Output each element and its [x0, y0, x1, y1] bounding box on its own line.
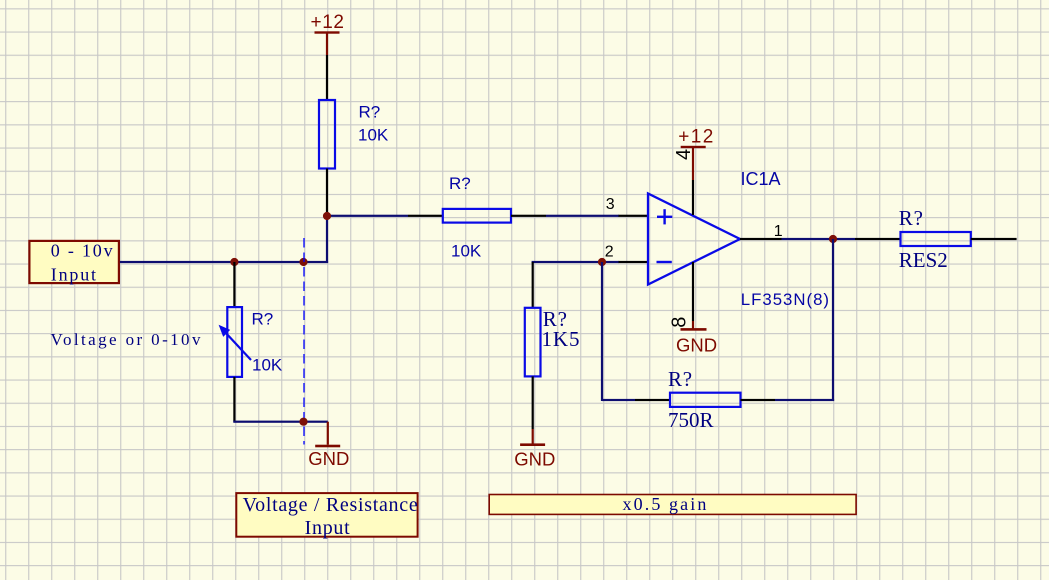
- pot R3 bottom pin wire: [233, 377, 235, 422]
- op-amp pin 4 wire: [692, 180, 694, 215]
- resistor R5 body (RES2): [901, 232, 971, 246]
- svg-text:1K5: 1K5: [542, 327, 581, 351]
- op-amp power +12 symbol: [678, 127, 714, 180]
- wire node row pin3: junction to R2: [327, 215, 408, 217]
- svg-text:R?: R?: [449, 174, 471, 193]
- pin wire right of R2: [511, 215, 546, 217]
- junction node B (pot top): [230, 258, 238, 266]
- junction node F (output): [829, 235, 837, 243]
- svg-text:IC1A: IC1A: [741, 169, 781, 189]
- svg-text:8: 8: [669, 317, 691, 328]
- note box x0.5 gain: [489, 494, 856, 514]
- pin wire left of R2: [408, 215, 443, 217]
- note box Voltage / Resistance Input: [236, 493, 418, 539]
- wire pot bottom to GND: [233, 421, 327, 423]
- resistor R2 body (horizontal 10K): [443, 209, 511, 223]
- pin wire right of R5: [971, 238, 1017, 240]
- junction node E (pin2 feedback): [598, 258, 606, 266]
- resistor R6 body (750R): [670, 393, 741, 407]
- op-amp minus input mark: [657, 261, 672, 263]
- svg-text:Voltage / Resistance: Voltage / Resistance: [243, 494, 419, 516]
- feedback wire to R6: [602, 399, 635, 401]
- svg-text:2: 2: [605, 243, 614, 260]
- pin wire below R1 to node: [326, 169, 328, 217]
- op-amp pin 2 stub: [619, 261, 649, 263]
- ground GND2: [514, 429, 555, 469]
- feedback vertical wire from junction E down: [601, 262, 603, 401]
- wire output to junction: [782, 238, 856, 240]
- dashed blue line: [303, 238, 305, 445]
- svg-text:Voltage or 0-10v: Voltage or 0-10v: [51, 330, 203, 349]
- pin wire left of R6: [635, 399, 670, 401]
- junction node A: [323, 212, 331, 220]
- resistor R4 top pin wire (1K5): [532, 262, 534, 308]
- svg-text:LF353N(8): LF353N(8): [741, 290, 830, 309]
- input port box 0-10v: [29, 240, 119, 284]
- junction node D (dashed line bottom): [299, 418, 307, 426]
- pin wire from +12 to R1: [326, 55, 328, 101]
- resistor R1 body (vertical 10K): [319, 100, 335, 169]
- svg-text:R?: R?: [359, 103, 381, 122]
- junction node C (dashed line top): [299, 258, 307, 266]
- feedback vertical wire up to output: [832, 239, 834, 401]
- wire op-amp pin2 row: [532, 261, 619, 263]
- svg-text:R?: R?: [252, 310, 274, 329]
- svg-text:Input: Input: [51, 265, 98, 285]
- svg-text:GND: GND: [676, 335, 717, 356]
- vertical wire from node A down to input row: [326, 216, 328, 263]
- potentiometer R3 body: [227, 307, 242, 377]
- resistor R4 bottom pin wire: [532, 376, 534, 429]
- op-amp pin 8 wire: [692, 262, 694, 321]
- svg-text:750R: 750R: [668, 408, 714, 432]
- op-amp pin 3 stub: [619, 215, 649, 217]
- op-amp U1 triangle: [648, 194, 740, 285]
- potentiometer R3 wiper arrow: [219, 325, 251, 360]
- input wire from port to column: [120, 261, 328, 263]
- svg-text:1: 1: [774, 223, 783, 240]
- svg-text:R?: R?: [899, 206, 924, 230]
- op-amp pin 1 output stub: [740, 238, 782, 240]
- ground GND3 (op-amp): [676, 321, 717, 356]
- svg-text:RES2: RES2: [899, 248, 948, 272]
- svg-text:+12: +12: [678, 127, 714, 148]
- svg-text:0 - 10v: 0 - 10v: [51, 240, 115, 260]
- svg-text:10K: 10K: [358, 126, 389, 145]
- power +12 symbol (top): [311, 12, 345, 55]
- op-amp plus input mark: [657, 209, 672, 224]
- ground GND1: [308, 422, 349, 469]
- feedback wire right segment: [775, 399, 834, 401]
- svg-text:3: 3: [606, 196, 615, 213]
- svg-text:4: 4: [673, 149, 695, 160]
- svg-text:GND: GND: [308, 448, 349, 469]
- svg-text:+12: +12: [311, 12, 345, 33]
- svg-text:GND: GND: [514, 448, 555, 469]
- svg-text:10K: 10K: [252, 356, 283, 375]
- svg-text:R?: R?: [668, 367, 693, 391]
- pin wire right of R6: [741, 399, 776, 401]
- wire to op-amp pin 3: [546, 215, 619, 217]
- pin wire left of R5: [855, 238, 901, 240]
- resistor R4 body (1K5): [525, 308, 541, 377]
- svg-text:x0.5 gain: x0.5 gain: [623, 494, 709, 514]
- pot R3 top pin wire: [233, 262, 235, 307]
- svg-text:10K: 10K: [451, 242, 482, 261]
- svg-text:Input: Input: [305, 517, 351, 539]
